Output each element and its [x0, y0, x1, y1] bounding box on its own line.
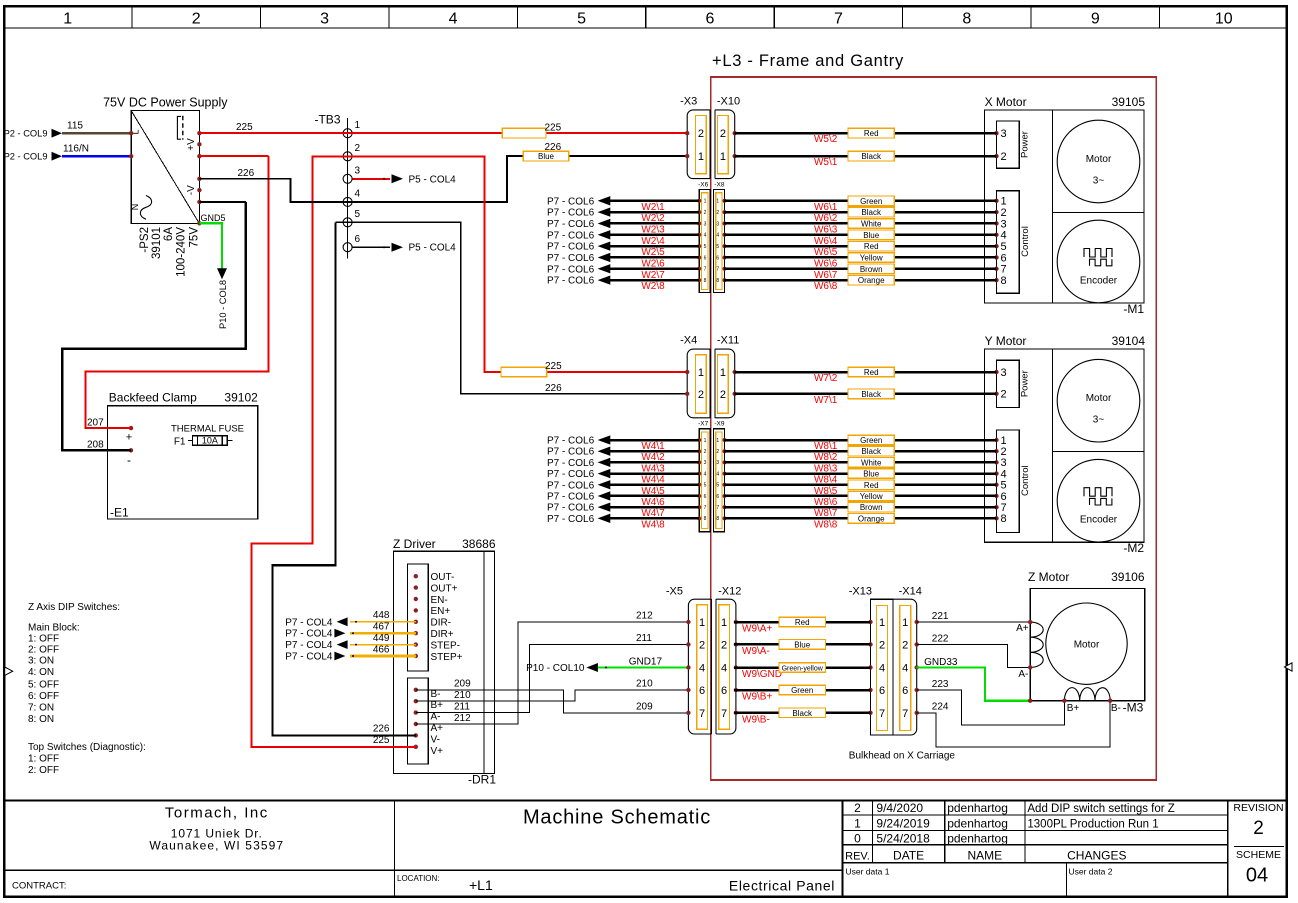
svg-text:226: 226 [545, 142, 562, 153]
svg-text:W5\2: W5\2 [814, 134, 838, 145]
svg-text:Z Motor: Z Motor [1028, 570, 1069, 584]
svg-text:6: 6 [706, 11, 715, 28]
svg-text:5: 5 [704, 244, 707, 250]
svg-text:1: OFF: 1: OFF [28, 754, 59, 765]
svg-text:7: ON: 7: ON [28, 703, 54, 714]
svg-text:7: 7 [834, 11, 843, 28]
svg-text:P7 - COL6: P7 - COL6 [547, 458, 595, 469]
svg-text:225: 225 [545, 122, 562, 133]
svg-text:+V: +V [186, 138, 197, 151]
svg-text:2: 2 [698, 389, 704, 401]
svg-text:-X3: -X3 [680, 96, 697, 108]
svg-text:OUT+: OUT+ [431, 583, 458, 594]
svg-text:3: 3 [716, 221, 719, 227]
svg-text:User data 2: User data 2 [1069, 867, 1113, 877]
svg-text:5: 5 [1001, 480, 1007, 492]
svg-text:P10 - COL8: P10 - COL8 [218, 280, 228, 329]
svg-text:+L1: +L1 [469, 877, 493, 893]
svg-text:-M2: -M2 [1123, 541, 1144, 555]
svg-text:Add DIP switch settings for Z: Add DIP switch settings for Z [1027, 803, 1174, 815]
svg-text:-X10: -X10 [717, 96, 740, 108]
svg-text:Red: Red [864, 242, 879, 251]
svg-text:P7 - COL6: P7 - COL6 [547, 436, 595, 447]
svg-text:39105: 39105 [1112, 95, 1146, 109]
svg-text:-M3: -M3 [1123, 701, 1144, 715]
svg-text:OUT-: OUT- [431, 572, 455, 583]
svg-text:Yellow: Yellow [860, 492, 883, 501]
svg-text:39104: 39104 [1112, 334, 1146, 348]
svg-text:W9\B+: W9\B+ [742, 692, 772, 703]
svg-text:2: 2 [716, 449, 719, 455]
svg-text:5/24/2018: 5/24/2018 [876, 832, 930, 846]
svg-text:-: - [127, 453, 131, 467]
svg-text:Top Switches (Diagnostic):: Top Switches (Diagnostic): [28, 742, 146, 753]
svg-text:6: 6 [879, 685, 885, 697]
svg-text:5: 5 [1001, 241, 1007, 253]
svg-text:4: 4 [716, 233, 719, 239]
svg-text:Waunakee, WI 53597: Waunakee, WI 53597 [149, 839, 284, 853]
svg-text:7: 7 [1001, 264, 1007, 276]
svg-text:V-: V- [431, 734, 440, 745]
svg-text:212: 212 [636, 611, 653, 622]
svg-text:2: 2 [879, 639, 885, 651]
svg-text:-X13: -X13 [849, 586, 872, 598]
svg-text:X Motor: X Motor [985, 95, 1027, 109]
svg-text:Blue: Blue [794, 640, 811, 649]
svg-text:REV.: REV. [845, 850, 870, 862]
svg-text:Brown: Brown [860, 503, 883, 512]
svg-text:EN+: EN+ [431, 606, 451, 617]
svg-text:5: 5 [704, 483, 707, 489]
svg-text:5: OFF: 5: OFF [28, 679, 59, 690]
svg-text:1: 1 [1001, 196, 1007, 208]
svg-text:-X14: -X14 [899, 586, 922, 598]
svg-text:8: 8 [716, 278, 719, 284]
svg-text:7: 7 [879, 708, 885, 720]
svg-text:Motor: Motor [1074, 640, 1100, 651]
svg-text:W7\1: W7\1 [814, 395, 838, 406]
svg-text:White: White [861, 219, 882, 228]
svg-text:39101: 39101 [151, 227, 163, 259]
svg-text:DIR-: DIR- [431, 618, 452, 629]
svg-text:Black: Black [861, 152, 882, 161]
svg-text:Control: Control [1020, 465, 1031, 496]
svg-text:P7 - COL6: P7 - COL6 [547, 469, 595, 480]
svg-text:W9\GND: W9\GND [742, 669, 782, 680]
svg-text:8: 8 [1001, 275, 1007, 287]
svg-text:P7 - COL6: P7 - COL6 [547, 276, 595, 287]
svg-text:EN-: EN- [431, 595, 448, 606]
svg-text:4: 4 [716, 471, 719, 477]
svg-text:209: 209 [454, 679, 471, 690]
svg-text:225: 225 [236, 122, 253, 133]
svg-text:8: 8 [716, 516, 719, 522]
svg-text:B-: B- [1111, 703, 1121, 714]
svg-text:Control: Control [1020, 226, 1031, 257]
svg-text:8: 8 [962, 11, 971, 28]
svg-text:+: + [126, 432, 132, 444]
svg-text:1: 1 [716, 199, 719, 205]
svg-text:Blue: Blue [863, 470, 880, 479]
svg-text:Z Axis DIP Switches:: Z Axis DIP Switches: [28, 602, 120, 613]
svg-text:8: ON: 8: ON [28, 714, 54, 725]
svg-text:2: OFF: 2: OFF [28, 644, 59, 655]
svg-text:CONTRACT:: CONTRACT: [12, 881, 66, 892]
svg-text:6: 6 [704, 255, 707, 261]
svg-text:1: 1 [902, 617, 908, 629]
svg-text:A+: A+ [431, 723, 444, 734]
svg-text:1: 1 [720, 367, 726, 379]
svg-text:1: 1 [355, 120, 361, 131]
svg-text:THERMAL FUSE: THERMAL FUSE [171, 423, 244, 434]
svg-text:SCHEME: SCHEME [1236, 849, 1281, 861]
svg-text:P7 - COL6: P7 - COL6 [547, 230, 595, 241]
svg-text:1: 1 [854, 816, 861, 830]
svg-text:7: 7 [704, 505, 707, 511]
svg-text:P7 - COL6: P7 - COL6 [547, 264, 595, 275]
svg-text:P7 - COL6: P7 - COL6 [547, 196, 595, 207]
svg-text:Orange: Orange [858, 276, 885, 285]
svg-text:2: 2 [355, 143, 361, 154]
svg-text:211: 211 [454, 701, 470, 712]
svg-text:2: 2 [704, 210, 707, 216]
svg-text:1: 1 [704, 199, 707, 205]
svg-text:Power: Power [1020, 370, 1031, 397]
svg-text:4: 4 [721, 663, 727, 675]
svg-text:1: 1 [716, 438, 719, 444]
svg-text:P7 - COL6: P7 - COL6 [547, 480, 595, 491]
svg-text:Black: Black [792, 709, 813, 718]
svg-text:A-: A- [431, 712, 441, 723]
svg-text:DIR+: DIR+ [431, 629, 454, 640]
svg-text:-PS2: -PS2 [139, 227, 151, 253]
svg-text:225: 225 [373, 735, 390, 746]
svg-text:LOCATION:: LOCATION: [397, 874, 440, 883]
svg-text:P7 - COL6: P7 - COL6 [547, 503, 595, 514]
svg-text:GND33: GND33 [924, 657, 958, 668]
svg-text:4: 4 [355, 189, 361, 200]
svg-text:2: 2 [704, 449, 707, 455]
svg-text:Red: Red [864, 129, 879, 138]
svg-text:W9\B-: W9\B- [742, 714, 770, 725]
svg-text:W2\8: W2\8 [641, 281, 665, 292]
svg-text:P5 - COL4: P5 - COL4 [409, 174, 457, 185]
svg-text:Green: Green [860, 436, 882, 445]
svg-text:7: 7 [1001, 502, 1007, 514]
svg-text:4: 4 [699, 663, 705, 675]
svg-text:466: 466 [373, 644, 390, 655]
svg-text:1: 1 [63, 11, 72, 28]
svg-text:-X5: -X5 [666, 586, 683, 598]
svg-text:STEP-: STEP- [431, 640, 460, 651]
svg-text:GND17: GND17 [629, 657, 663, 668]
svg-text:P7 - COL4: P7 - COL4 [285, 617, 333, 628]
svg-text:6: 6 [716, 494, 719, 500]
svg-text:6: 6 [721, 685, 727, 697]
svg-text:3: 3 [704, 460, 707, 466]
svg-text:222: 222 [932, 633, 949, 644]
svg-text:225: 225 [545, 361, 562, 372]
svg-text:1: 1 [721, 617, 727, 629]
svg-text:4: 4 [704, 471, 707, 477]
svg-text:75V DC Power Supply: 75V DC Power Supply [103, 96, 228, 110]
svg-text:P5 - COL4: P5 - COL4 [409, 243, 457, 254]
svg-text:6: 6 [1001, 252, 1007, 264]
svg-text:6: 6 [355, 234, 361, 245]
svg-text:CHANGES: CHANGES [1067, 848, 1126, 862]
svg-text:1: 1 [698, 151, 704, 163]
svg-text:P7 - COL6: P7 - COL6 [547, 242, 595, 253]
svg-text:4: ON: 4: ON [28, 667, 54, 678]
svg-text:Blue: Blue [538, 152, 555, 161]
svg-text:Black: Black [861, 390, 882, 399]
svg-text:226: 226 [545, 383, 562, 394]
svg-text:W7\2: W7\2 [814, 373, 838, 384]
svg-text:Green: Green [791, 686, 813, 695]
svg-text:211: 211 [636, 633, 652, 644]
svg-text:467: 467 [373, 622, 390, 633]
svg-text:212: 212 [454, 713, 471, 724]
svg-text:White: White [861, 458, 882, 467]
svg-text:DATE: DATE [893, 848, 924, 862]
svg-text:7: 7 [716, 267, 719, 273]
svg-text:2: 2 [1001, 207, 1007, 219]
svg-text:P2 - COL9: P2 - COL9 [4, 129, 48, 139]
svg-text:2: 2 [1001, 151, 1007, 163]
svg-text:W9\A-: W9\A- [742, 646, 770, 657]
svg-text:P7 - COL6: P7 - COL6 [547, 253, 595, 264]
svg-text:3: 3 [320, 11, 329, 28]
svg-text:-DR1: -DR1 [468, 773, 496, 787]
svg-text:V+: V+ [431, 746, 444, 757]
svg-text:4: 4 [1001, 230, 1007, 242]
svg-text:39106: 39106 [1111, 570, 1145, 584]
svg-text:A-: A- [1018, 669, 1028, 680]
svg-text:5: 5 [716, 244, 719, 250]
svg-text:NAME: NAME [967, 848, 1002, 862]
svg-text:4: 4 [879, 663, 885, 675]
svg-text:100-240V: 100-240V [176, 227, 188, 277]
svg-text:210: 210 [636, 679, 653, 690]
svg-text:Tormach, Inc: Tormach, Inc [165, 805, 269, 822]
svg-text:P7 - COL4: P7 - COL4 [285, 640, 333, 651]
svg-text:pdenhartog: pdenhartog [947, 816, 1008, 830]
svg-text:04: 04 [1246, 865, 1268, 887]
svg-text:4: 4 [449, 11, 458, 28]
svg-text:0: 0 [854, 832, 861, 846]
svg-text:Blue: Blue [863, 231, 880, 240]
svg-text:1: 1 [698, 367, 704, 379]
svg-text:3~: 3~ [1093, 176, 1105, 187]
svg-text:210: 210 [454, 690, 471, 701]
svg-text:Yellow: Yellow [860, 253, 883, 262]
svg-text:-X11: -X11 [717, 335, 739, 347]
svg-text:226: 226 [238, 168, 255, 179]
svg-text:2: 2 [1001, 389, 1007, 401]
svg-text:P7 - COL6: P7 - COL6 [547, 491, 595, 502]
svg-text:Orange: Orange [858, 514, 885, 523]
svg-text:F1: F1 [174, 436, 186, 447]
svg-text:9/24/2019: 9/24/2019 [876, 816, 930, 830]
svg-text:W9\A+: W9\A+ [742, 624, 772, 635]
svg-text:W8\8: W8\8 [814, 519, 838, 530]
svg-text:2: 2 [720, 389, 726, 401]
svg-text:Motor: Motor [1086, 393, 1112, 404]
svg-text:3: ON: 3: ON [28, 656, 54, 667]
svg-text:P2 - COL9: P2 - COL9 [4, 152, 48, 162]
svg-text:3: 3 [1001, 367, 1007, 379]
svg-text:Main Block:: Main Block: [28, 623, 80, 634]
svg-text:2: 2 [902, 639, 908, 651]
svg-text:-X6: -X6 [698, 182, 709, 189]
svg-text:-X12: -X12 [718, 586, 741, 598]
svg-text:P7 - COL4: P7 - COL4 [285, 629, 333, 640]
svg-text:4: 4 [902, 663, 908, 675]
svg-text:-M1: -M1 [1123, 302, 1144, 316]
svg-text:3: 3 [704, 221, 707, 227]
svg-text:1: OFF: 1: OFF [28, 634, 59, 645]
svg-text:W4\8: W4\8 [641, 519, 665, 530]
svg-text:2: 2 [699, 639, 705, 651]
svg-text:7: 7 [716, 505, 719, 511]
svg-text:B+: B+ [431, 700, 444, 711]
svg-text:Black: Black [861, 447, 882, 456]
svg-text:10A: 10A [202, 435, 218, 445]
svg-text:7: 7 [704, 267, 707, 273]
svg-text:8: 8 [1001, 513, 1007, 525]
svg-text:5: 5 [577, 11, 586, 28]
svg-text:6: 6 [704, 494, 707, 500]
svg-text:pdenhartog: pdenhartog [947, 832, 1008, 846]
svg-text:6: 6 [1001, 491, 1007, 503]
svg-text:-X4: -X4 [680, 335, 697, 347]
svg-text:P7 - COL6: P7 - COL6 [547, 208, 595, 219]
svg-text:GND5: GND5 [201, 213, 226, 223]
svg-text:39102: 39102 [224, 391, 258, 405]
svg-text:+L3 - Frame and Gantry: +L3 - Frame and Gantry [712, 52, 904, 70]
svg-text:6: 6 [699, 685, 705, 697]
svg-text:Z Driver: Z Driver [393, 537, 436, 551]
svg-text:Machine Schematic: Machine Schematic [523, 807, 711, 829]
svg-text:User data 1: User data 1 [846, 867, 890, 877]
svg-text:2: 2 [720, 128, 726, 140]
svg-text:-X7: -X7 [698, 421, 709, 428]
svg-text:A+: A+ [1016, 623, 1029, 634]
svg-text:38686: 38686 [462, 537, 496, 551]
svg-text:pdenhartog: pdenhartog [947, 801, 1008, 815]
svg-text:Motor: Motor [1086, 154, 1112, 165]
svg-text:Green: Green [860, 197, 882, 206]
svg-text:Bulkhead on X Carriage: Bulkhead on X Carriage [849, 751, 956, 762]
svg-text:2: 2 [698, 128, 704, 140]
svg-text:3: 3 [1001, 128, 1007, 140]
svg-text:Green-yellow: Green-yellow [782, 666, 824, 673]
svg-text:207: 207 [87, 417, 104, 428]
svg-text:1: 1 [879, 617, 885, 629]
svg-text:3: 3 [355, 166, 361, 177]
svg-text:208: 208 [87, 439, 104, 450]
svg-text:P7 - COL6: P7 - COL6 [547, 447, 595, 458]
svg-text:Brown: Brown [860, 265, 883, 274]
svg-text:2: 2 [854, 801, 861, 815]
svg-text:8: 8 [704, 278, 707, 284]
svg-text:Power: Power [1020, 131, 1031, 158]
svg-text:7: 7 [721, 708, 727, 720]
svg-text:-E1: -E1 [110, 506, 129, 520]
svg-text:-X8: -X8 [714, 182, 725, 189]
svg-text:B+: B+ [1067, 703, 1080, 714]
svg-text:Black: Black [861, 208, 882, 217]
svg-text:Backfeed Clamp: Backfeed Clamp [109, 391, 197, 405]
svg-text:448: 448 [373, 610, 390, 621]
svg-text:Encoder: Encoder [1080, 276, 1118, 287]
svg-text:10: 10 [1215, 11, 1233, 28]
svg-text:115: 115 [67, 120, 83, 131]
svg-text:116/N: 116/N [63, 143, 89, 154]
svg-text:2: 2 [716, 210, 719, 216]
svg-text:1: 1 [699, 617, 705, 629]
svg-text:9: 9 [1091, 11, 1100, 28]
svg-text:Red: Red [795, 618, 810, 627]
svg-text:6: 6 [716, 255, 719, 261]
svg-text:9/4/2020: 9/4/2020 [876, 801, 923, 815]
svg-text:7: 7 [902, 708, 908, 720]
svg-text:75V: 75V [189, 227, 201, 248]
svg-text:-TB3: -TB3 [314, 113, 340, 127]
svg-text:3: 3 [1001, 218, 1007, 230]
svg-text:5: 5 [355, 209, 361, 220]
svg-text:1: 1 [720, 151, 726, 163]
svg-text:Encoder: Encoder [1080, 515, 1118, 526]
svg-text:REVISION: REVISION [1233, 802, 1283, 814]
svg-text:2: OFF: 2: OFF [28, 765, 59, 776]
svg-text:Red: Red [864, 481, 879, 490]
svg-text:5: 5 [716, 483, 719, 489]
svg-text:B-: B- [431, 689, 441, 700]
svg-text:2: 2 [721, 639, 727, 651]
svg-text:P7 - COL6: P7 - COL6 [547, 219, 595, 230]
svg-text:-X9: -X9 [714, 421, 725, 428]
svg-text:6: OFF: 6: OFF [28, 691, 59, 702]
svg-text:6: 6 [902, 685, 908, 697]
svg-text:P7 - COL6: P7 - COL6 [547, 514, 595, 525]
svg-text:P7 - COL4: P7 - COL4 [285, 652, 333, 663]
svg-text:W6\8: W6\8 [814, 281, 838, 292]
svg-text:N: N [130, 204, 140, 211]
svg-text:224: 224 [932, 702, 949, 713]
svg-text:Y Motor: Y Motor [985, 334, 1027, 348]
svg-text:449: 449 [373, 633, 390, 644]
svg-text:209: 209 [636, 701, 653, 712]
svg-text:W5\1: W5\1 [814, 157, 838, 168]
svg-text:7: 7 [699, 708, 705, 720]
svg-text:223: 223 [932, 679, 949, 690]
svg-text:221: 221 [932, 611, 949, 622]
svg-text:1300PL Production Run 1: 1300PL Production Run 1 [1027, 818, 1158, 830]
svg-text:Electrical Panel: Electrical Panel [729, 878, 835, 894]
svg-text:Red: Red [864, 368, 879, 377]
svg-text:1: 1 [704, 438, 707, 444]
svg-text:2: 2 [192, 11, 201, 28]
svg-text:-V: -V [186, 185, 197, 195]
svg-text:8: 8 [704, 516, 707, 522]
svg-text:3: 3 [716, 460, 719, 466]
svg-text:STEP+: STEP+ [431, 652, 463, 663]
svg-text:226: 226 [373, 724, 390, 735]
svg-text:3~: 3~ [1093, 415, 1105, 426]
svg-text:4: 4 [704, 233, 707, 239]
svg-text:2: 2 [1253, 818, 1264, 839]
